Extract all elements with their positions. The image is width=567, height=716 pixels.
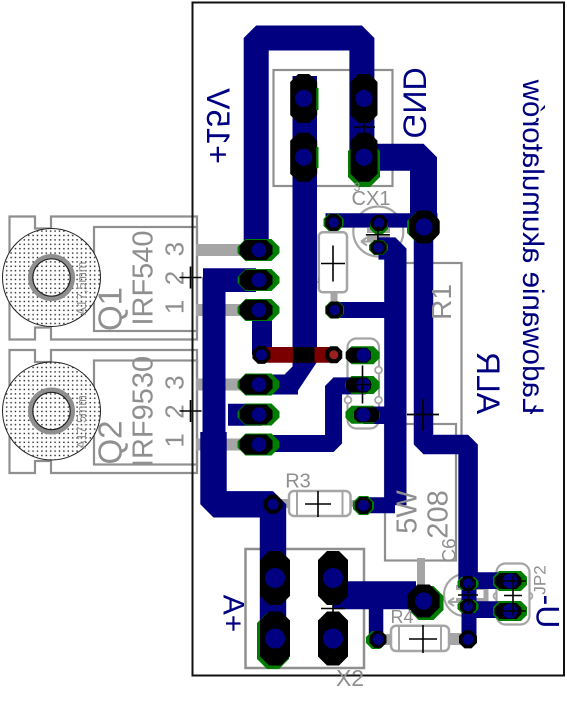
pad X1-4 green bbox=[348, 141, 380, 187]
pad X2-3 hole bbox=[323, 568, 343, 588]
pad CX1 top hole bbox=[374, 218, 384, 228]
wire Q2 pad1 stub bbox=[252, 375, 298, 395]
svg-text:IRF540: IRF540 bbox=[128, 230, 160, 325]
transistor C6 arrow bbox=[448, 598, 458, 606]
transistor Q2 IRF9530 body outline bbox=[10, 350, 198, 473]
pad JP2-1 core bbox=[495, 573, 522, 589]
pad R4 left bbox=[370, 631, 387, 648]
pad R2 top hole bbox=[328, 217, 338, 227]
origin cross X1 bbox=[353, 116, 375, 138]
pad X2-1 bbox=[260, 551, 290, 605]
pad Q2-2 core bbox=[240, 405, 273, 425]
svg-text:R3: R3 bbox=[285, 471, 311, 493]
svg-text:208: 208 bbox=[423, 490, 455, 538]
svg-text:Q1: Q1 bbox=[92, 287, 129, 331]
resistor R3 lead right bbox=[348, 500, 358, 507]
pad X2-2 hole bbox=[265, 629, 285, 649]
origin cross R3 bbox=[305, 491, 331, 517]
pad CX1 bottom hole bbox=[373, 242, 383, 252]
connector X2 outline bbox=[246, 549, 365, 668]
wire C6 bottom to JP2 pad2 bbox=[468, 601, 510, 618]
pad 5W bbox=[408, 585, 440, 618]
pad CX1 top green bbox=[370, 218, 388, 234]
pad JP1-1 hole bbox=[357, 348, 371, 362]
board outline bbox=[193, 3, 565, 676]
pad X1-3 hole bbox=[355, 90, 372, 107]
wire X1 pin4 to GND pad elbow bbox=[364, 157, 424, 218]
pad JP1-3 green bbox=[346, 406, 380, 424]
pad R2 top bbox=[325, 214, 342, 231]
origin cross R1 bbox=[407, 399, 439, 431]
pad R4 left green bbox=[366, 631, 386, 649]
pad JP2-1 hole bbox=[503, 574, 518, 589]
pad X1 col1 green sliver2 bbox=[316, 147, 318, 168]
pad Q1-3 hole bbox=[252, 303, 267, 318]
transistor Q1 IRF540 body outline bbox=[10, 217, 198, 340]
wire CX1 bottom pad to B2 vertical bbox=[379, 249, 396, 506]
pad Q1-1 core bbox=[240, 240, 273, 260]
pad JP2-2 core bbox=[495, 603, 522, 619]
pad Q2-1 hole bbox=[252, 377, 267, 392]
pad C6 bottom hole bbox=[463, 602, 473, 612]
pad JP1-1 core bbox=[346, 348, 371, 363]
header JP2 outline bbox=[497, 564, 530, 625]
resistor R3 lead left bbox=[281, 499, 292, 508]
pad X2-1 hole bbox=[265, 568, 285, 588]
resistor R2 lead top bbox=[330, 222, 338, 234]
pad Q2-3 hole bbox=[252, 437, 267, 452]
capacitor CX1 polarity arrow bbox=[361, 238, 372, 246]
pad R4 right hole bbox=[463, 634, 474, 645]
svg-text:A17,5mm: A17,5mm bbox=[75, 262, 89, 316]
svg-text:R4: R4 bbox=[390, 607, 413, 627]
pad R3 left bbox=[264, 495, 283, 514]
header JP1 scallop notches bbox=[345, 367, 382, 404]
pad X1-4 hole bbox=[355, 149, 372, 166]
wire red/blue crossing bbox=[293, 347, 315, 363]
pad 5W hole bbox=[415, 592, 432, 609]
pad JP1-1 green bbox=[346, 346, 380, 364]
svg-text:Q2: Q2 bbox=[92, 420, 129, 464]
pad R3 right hole bbox=[358, 500, 369, 511]
wire B2 bottom to R3 right pad bbox=[364, 497, 396, 513]
pad C6 bottom bbox=[460, 599, 476, 614]
pad R2 bottom green bbox=[325, 302, 344, 319]
pad Q2-1 core bbox=[240, 375, 273, 395]
svg-text:GND: GND bbox=[397, 67, 433, 138]
pad C6 top green bbox=[458, 577, 479, 590]
Q1 pin1 leg bbox=[196, 244, 240, 256]
pad X1-2 hole bbox=[295, 149, 312, 166]
wire branch down to R4 left pad bbox=[369, 604, 384, 637]
wire JP1 pad3 to B2 bbox=[364, 406, 396, 424]
5W resistor bottom lead bbox=[417, 558, 425, 586]
pad X1 col1 green sliver1 bbox=[316, 88, 318, 110]
resistor R2 body bbox=[319, 232, 347, 292]
pad X2-4 hole bbox=[323, 629, 343, 649]
pad Q1-1 green bbox=[238, 239, 280, 261]
Q2 pin3 leg bbox=[196, 439, 240, 451]
pad JP1-2 core bbox=[346, 378, 371, 393]
resistor R1 outline bbox=[404, 263, 462, 449]
svg-text:Ładowanie akumulatorów: Ładowanie akumulatorów bbox=[516, 79, 549, 414]
pad JP1-3 hole bbox=[357, 408, 371, 422]
pad R2 top green bbox=[324, 214, 344, 231]
pad X1-1 hole bbox=[295, 90, 312, 107]
cross JP2 pad2 bbox=[500, 610, 526, 612]
wire Q1 pad3 down to red node bbox=[252, 310, 272, 355]
wire left main vertical upper bbox=[203, 277, 226, 440]
pad node red-left hole bbox=[256, 349, 267, 360]
origin cross CX1 bbox=[366, 226, 390, 244]
resistor R2 lead bottom bbox=[331, 290, 338, 306]
pad CX1 bottom bbox=[371, 241, 387, 255]
wire Q2 pad2 stub bbox=[228, 404, 262, 426]
svg-text:U-: U- bbox=[530, 595, 566, 629]
pad JP1-2 hole bbox=[357, 378, 371, 392]
origin cross X2 bbox=[321, 597, 345, 621]
pad R3 right green bbox=[353, 496, 374, 515]
svg-text:A17,5mm: A17,5mm bbox=[75, 395, 89, 449]
svg-text:+A: +A bbox=[217, 595, 250, 633]
resistor R3 body bbox=[289, 491, 351, 516]
pad Q1-1 hole bbox=[252, 243, 267, 258]
pad node red-left bbox=[252, 346, 270, 364]
pad R3 right bbox=[355, 497, 372, 514]
origin cross JP1 bbox=[354, 366, 372, 404]
pad X2-3 bbox=[318, 551, 348, 605]
wire CX1 net horizontal bbox=[326, 213, 438, 227]
pad R2 bottom hole bbox=[329, 305, 339, 315]
pad X2-2 bbox=[260, 612, 290, 666]
origin cross JP2 bbox=[504, 576, 522, 616]
pad R4 right bbox=[459, 630, 477, 648]
svg-text:+15V: +15V bbox=[200, 88, 236, 164]
pad GND via green bbox=[407, 212, 440, 242]
resistor R4 cap lines bbox=[399, 626, 441, 651]
pad R2 bottom bbox=[326, 302, 343, 319]
wire C6 top to JP2 pad1 bbox=[468, 572, 510, 589]
pad CX1 top bbox=[371, 215, 388, 231]
wire left main vertical with bottom elbow bbox=[214, 432, 274, 652]
pad JP1-2 green bbox=[346, 376, 380, 394]
cross JP2 pad1 bbox=[500, 580, 526, 582]
pad C6 top bbox=[460, 576, 476, 591]
wire GND pad down and over to C6 bbox=[424, 232, 469, 588]
pad Q2-3 green bbox=[238, 434, 280, 456]
wire X2 pad3 to 5W pad bbox=[333, 581, 416, 609]
svg-text:ALR: ALR bbox=[470, 352, 506, 414]
wire R2 bottom to B2 bbox=[335, 302, 398, 318]
pad JP1-3 core bbox=[354, 407, 379, 422]
origin cross Q1 bbox=[180, 267, 202, 289]
pad C6 bottom green bbox=[458, 600, 479, 613]
pad node red-right bbox=[325, 346, 342, 363]
pad Q1-3 core bbox=[240, 300, 273, 320]
header JP1 outline bbox=[348, 339, 380, 429]
pad X2-4 bbox=[318, 612, 348, 666]
origin cross R2 bbox=[321, 246, 345, 282]
transistor C6 outline bbox=[444, 574, 486, 616]
svg-text:X2: X2 bbox=[336, 665, 364, 691]
svg-text:5W: 5W bbox=[392, 490, 424, 534]
pad X1-1 bbox=[290, 74, 317, 123]
pad Q2-2 hole bbox=[252, 407, 267, 422]
resistor R4 body bbox=[391, 626, 449, 651]
pad R4 left hole bbox=[373, 634, 384, 645]
origin cross C6 bbox=[458, 585, 478, 605]
pad Q2-2 green bbox=[238, 404, 280, 426]
svg-text:3: 3 bbox=[354, 180, 361, 194]
pad Q1-3 green bbox=[238, 299, 280, 321]
resistor R4 lead right bbox=[448, 633, 461, 645]
resistor R4 lead left bbox=[383, 634, 394, 645]
pad Q1-2 green bbox=[238, 269, 280, 291]
pad 5W green bbox=[409, 586, 444, 620]
pad X2-2 green bbox=[257, 613, 289, 669]
capacitor CX1 plates bbox=[367, 231, 390, 239]
pad X1-3 bbox=[351, 74, 378, 123]
svg-text:R1: R1 bbox=[426, 284, 457, 320]
pad X1-2 bbox=[290, 133, 317, 182]
svg-text:JP2: JP2 bbox=[531, 565, 550, 594]
wire Q1 pad2 elbow bbox=[203, 268, 256, 292]
wire red jumper bbox=[261, 347, 333, 363]
pad X1-4 bbox=[351, 133, 378, 182]
pad Q2-1 green bbox=[238, 374, 280, 396]
pad Q1-2 hole bbox=[252, 273, 267, 288]
origin cross Q2 bbox=[180, 400, 202, 422]
connector X1 outline bbox=[274, 70, 393, 186]
Q2 pin1 leg bbox=[196, 379, 240, 391]
resistor R3 cap lines bbox=[297, 491, 343, 516]
pad C6 top hole bbox=[463, 579, 473, 589]
pad GND via hole bbox=[415, 218, 432, 235]
pad R3 left hole bbox=[268, 499, 279, 510]
pad GND via bbox=[409, 211, 439, 244]
wire Q2 pad3 to JP1 pad2 bbox=[252, 386, 366, 444]
wire +15V top U-shape bbox=[256, 38, 362, 258]
pad JP2-1 green bbox=[493, 571, 527, 591]
pad Q1-2 core bbox=[240, 270, 273, 290]
pad node red-right hole bbox=[329, 350, 338, 359]
transistor C6 bars bbox=[456, 584, 486, 604]
Q1 pin3 leg bbox=[196, 304, 240, 316]
svg-text:IRF9530: IRF9530 bbox=[128, 356, 160, 467]
pad JP2-2 green bbox=[493, 601, 527, 621]
origin cross R4 bbox=[409, 625, 437, 653]
resistor 5W 208 outline bbox=[385, 424, 456, 561]
header JP2 scallop notches bbox=[494, 593, 533, 600]
pad CX1 bottom green bbox=[369, 240, 388, 255]
pad Q2-3 core bbox=[240, 435, 273, 455]
wire C6 down to R4 right pad bbox=[462, 582, 477, 639]
capacitor CX1 outline bbox=[353, 207, 403, 257]
svg-text:C6: C6 bbox=[440, 538, 461, 562]
pad JP2-2 hole bbox=[503, 604, 518, 619]
wire X1 col1 down the middle to Q2 pad1 bbox=[250, 76, 317, 394]
